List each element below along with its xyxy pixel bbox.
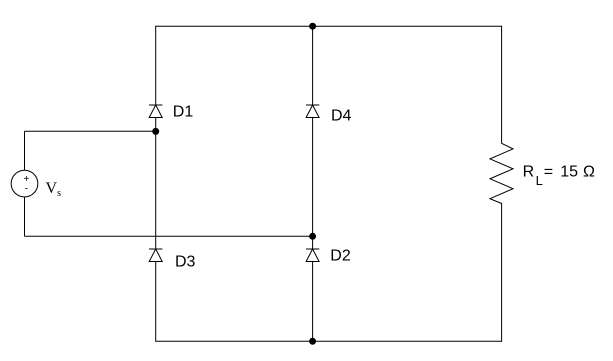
svg-text:D3: D3 — [175, 254, 196, 271]
svg-text:L: L — [536, 173, 543, 188]
svg-text:D2: D2 — [330, 248, 351, 265]
svg-text:R: R — [523, 164, 535, 181]
svg-text:D1: D1 — [173, 104, 194, 121]
svg-text:D4: D4 — [331, 108, 352, 125]
svg-text:15: 15 — [560, 164, 578, 181]
svg-text:Ω: Ω — [583, 164, 595, 181]
svg-text:-: - — [25, 183, 28, 194]
svg-text:=: = — [544, 164, 553, 181]
